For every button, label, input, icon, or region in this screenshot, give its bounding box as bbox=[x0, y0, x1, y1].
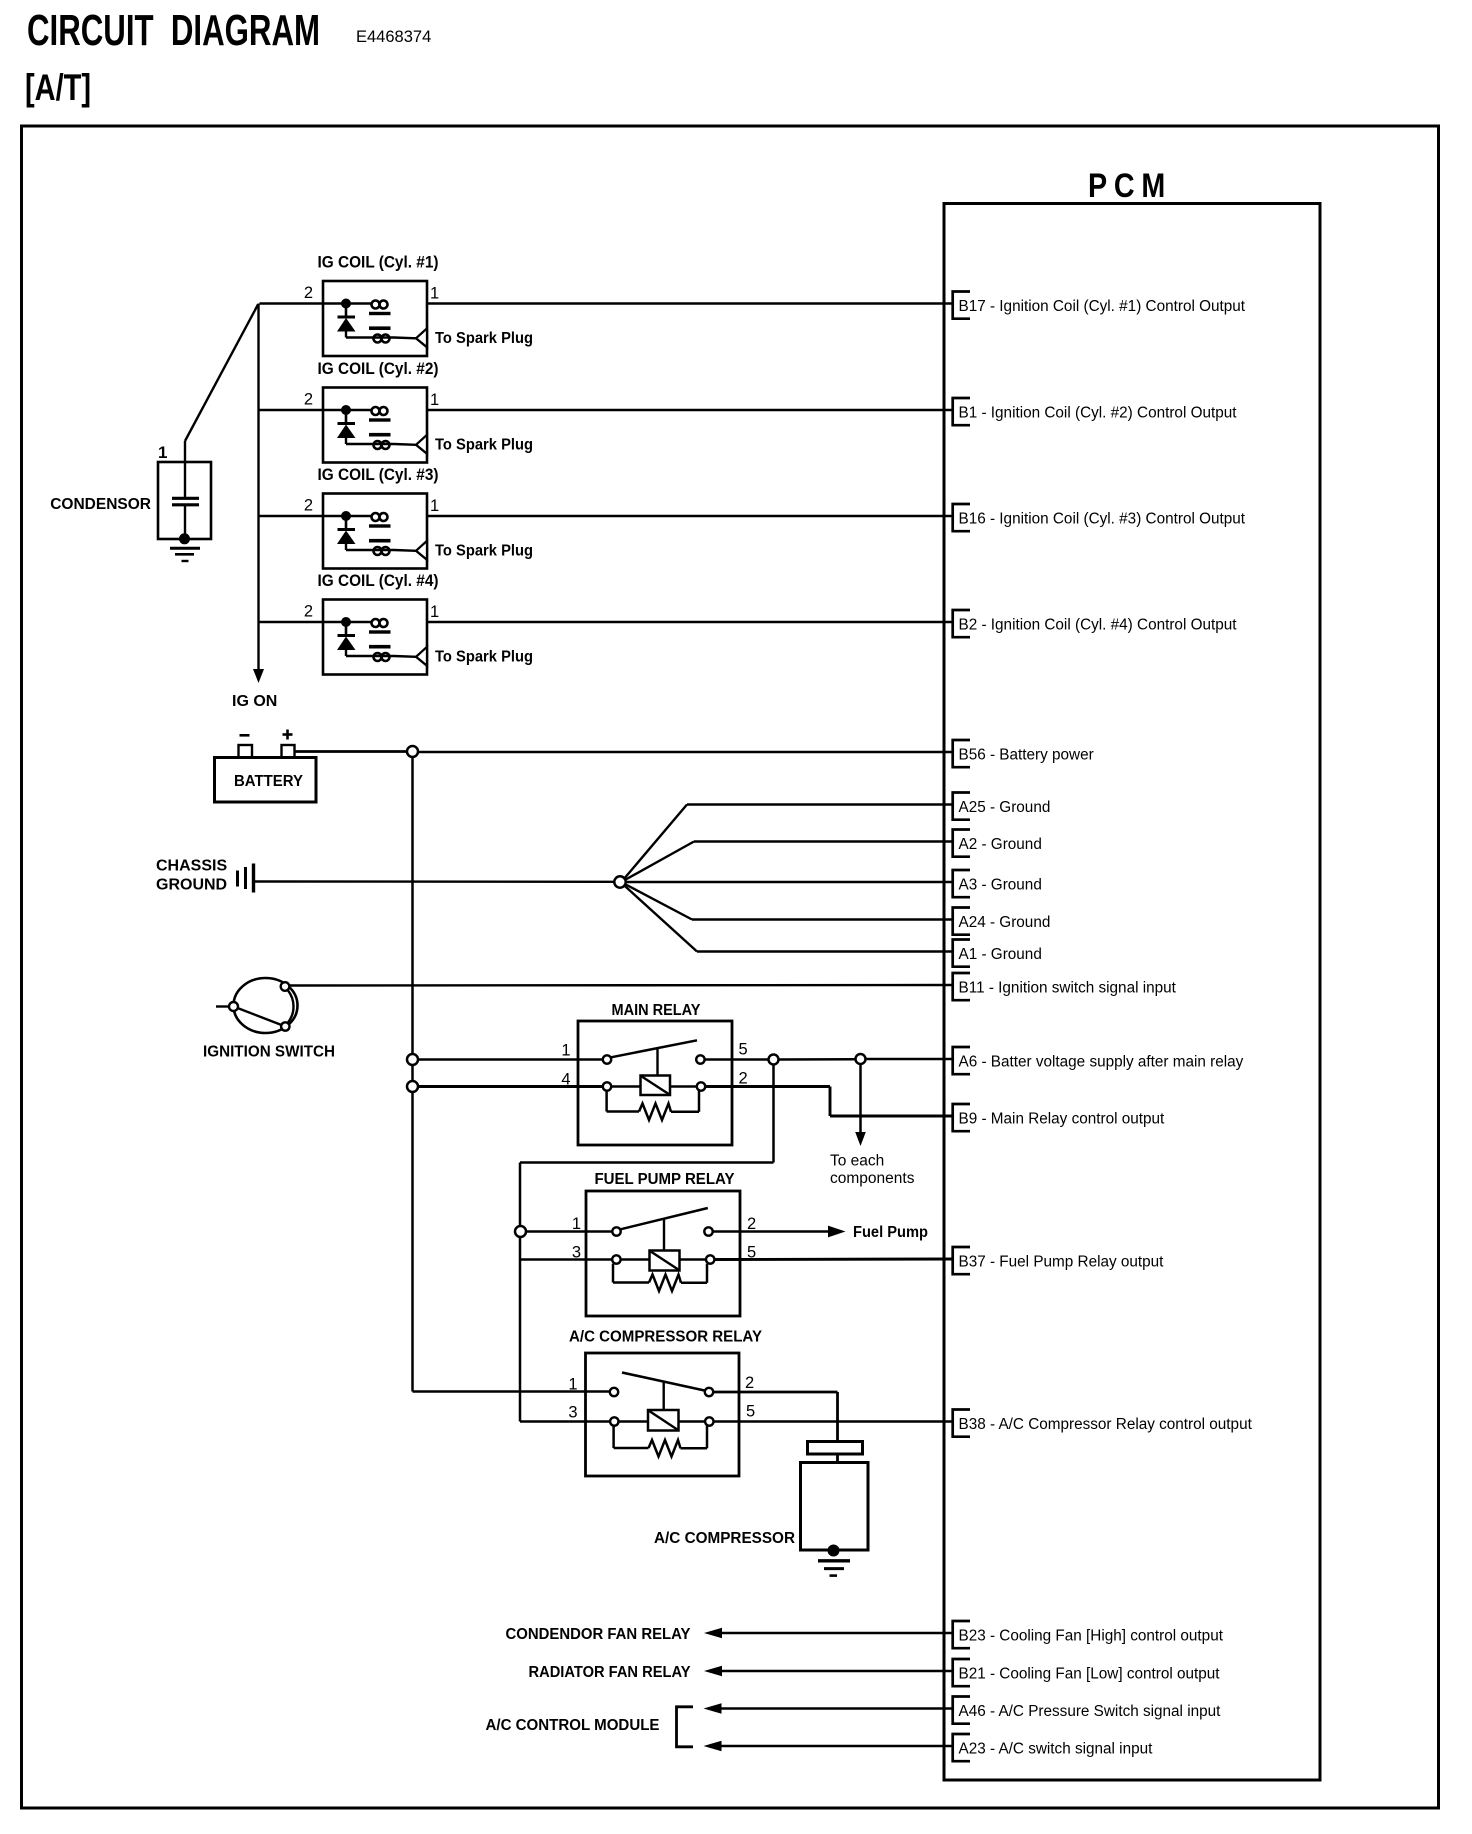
wire main relay pin 5 to node A bbox=[705, 1058, 769, 1061]
arrow to a/c control module (A23) bbox=[704, 1741, 722, 1751]
wire node B to PCM A6 bbox=[866, 1058, 953, 1061]
svg-text:1: 1 bbox=[430, 603, 439, 621]
IG coil 3 secondary wire to spark plug arrow bbox=[346, 549, 394, 551]
wire PCM A46 to a/c control module bbox=[720, 1707, 953, 1710]
IG coil 4 secondary winding bbox=[369, 645, 391, 649]
svg-text:5: 5 bbox=[746, 1403, 755, 1421]
IG coil 2 primary winding bbox=[372, 407, 380, 415]
a/c compressor clutch coil plate bbox=[808, 1442, 863, 1455]
svg-text:CONDENSOR: CONDENSOR bbox=[50, 496, 151, 513]
svg-text:A24 - Ground: A24 - Ground bbox=[959, 914, 1051, 931]
battery minus sign bbox=[240, 734, 250, 737]
svg-text:B9 - Main Relay control output: B9 - Main Relay control output bbox=[959, 1110, 1166, 1127]
svg-text:B17 - Ignition Coil (Cyl. #1): B17 - Ignition Coil (Cyl. #1) Control Ou… bbox=[959, 298, 1246, 315]
svg-text:4: 4 bbox=[561, 1071, 570, 1089]
a/c compressor ground dot bbox=[828, 1545, 840, 1557]
condensor lower lead bbox=[184, 505, 186, 539]
svg-text:A1 - Ground: A1 - Ground bbox=[959, 946, 1042, 963]
svg-text:A2 - Ground: A2 - Ground bbox=[959, 836, 1042, 853]
svg-text:2: 2 bbox=[304, 603, 313, 621]
svg-text:[A/T]: [A/T] bbox=[25, 67, 91, 108]
svg-text:2: 2 bbox=[739, 1070, 748, 1088]
ignition switch contact arc bbox=[288, 991, 294, 1023]
svg-text:components: components bbox=[830, 1170, 915, 1187]
battery negative terminal bbox=[239, 745, 253, 758]
main relay pin 4 contact bbox=[603, 1082, 611, 1090]
ignition switch terminal bottom right bbox=[281, 1022, 289, 1030]
IG coil 3 secondary winding bbox=[369, 539, 391, 543]
svg-text:To Spark Plug: To Spark Plug bbox=[435, 542, 533, 559]
fuel pump relay box bbox=[586, 1191, 740, 1316]
main relay box bbox=[578, 1021, 732, 1145]
svg-text:1: 1 bbox=[568, 1376, 577, 1394]
IG coil (Cyl. #1) box bbox=[323, 281, 427, 356]
PCM pin A1 bbox=[953, 940, 970, 967]
wire PCM B21 to radiator fan relay bbox=[720, 1670, 953, 1673]
svg-text:3: 3 bbox=[572, 1244, 581, 1262]
ignition switch stub wire bbox=[216, 1005, 230, 1007]
PCM pin B9 bbox=[953, 1104, 970, 1131]
a/c relay coil bbox=[648, 1410, 679, 1431]
IG coil 1 primary winding bbox=[372, 301, 380, 309]
svg-text:A6 - Batter voltage supply aft: A6 - Batter voltage supply after main re… bbox=[959, 1053, 1244, 1070]
wire IG coil 1 pin 1 to PCM bbox=[427, 302, 953, 304]
IG coil 4 secondary wire to spark plug arrow bbox=[346, 655, 394, 657]
wire battery node to PCM B56 bbox=[418, 751, 953, 754]
IG coil 4 primary winding bbox=[372, 619, 380, 627]
IG coil (Cyl. #2) box bbox=[323, 388, 427, 463]
main relay coil wires bbox=[611, 1085, 640, 1088]
PCM pin B2 bbox=[953, 610, 970, 637]
wire node A to node B bbox=[779, 1058, 857, 1061]
svg-text:To each: To each bbox=[830, 1153, 884, 1170]
IG coil 4 internal: input wire and junction dot bbox=[323, 621, 371, 623]
a/c control module bracket bbox=[677, 1707, 694, 1747]
ignition switch wiper line bbox=[238, 1008, 282, 1025]
svg-text:2: 2 bbox=[304, 284, 313, 302]
wire a/c relay pin 5 to PCM B38 bbox=[714, 1420, 953, 1423]
a/c relay switch arm bbox=[622, 1373, 705, 1391]
IG coil 2 internal: input wire and junction dot bbox=[323, 409, 371, 411]
wire bus to IG coil 3 pin 2 bbox=[260, 515, 324, 517]
fuel pump relay pin 2 contact bbox=[704, 1227, 712, 1235]
svg-text:2: 2 bbox=[304, 497, 313, 515]
wire fuel pump relay pin 2 to fuel pump arrow bbox=[713, 1230, 828, 1233]
svg-text:2: 2 bbox=[747, 1215, 756, 1233]
svg-text:1: 1 bbox=[430, 497, 439, 515]
svg-text:3: 3 bbox=[568, 1404, 577, 1422]
a/c relay resistor loop bbox=[612, 1426, 615, 1448]
svg-text:PCM: PCM bbox=[1088, 167, 1172, 205]
wire node to A1 bbox=[624, 885, 697, 951]
svg-text:B56 - Battery power: B56 - Battery power bbox=[959, 746, 1094, 763]
a/c relay actuator link bbox=[663, 1382, 665, 1411]
wire PCM A23 to a/c control module bbox=[720, 1745, 953, 1748]
IG coil 2 secondary wire to spark plug arrow bbox=[346, 443, 394, 445]
svg-text:B1 - Ignition Coil (Cyl. #2) C: B1 - Ignition Coil (Cyl. #2) Control Out… bbox=[959, 404, 1238, 421]
PCM pin A24 bbox=[953, 908, 970, 935]
svg-text:CIRCUIT DIAGRAM: CIRCUIT DIAGRAM bbox=[27, 6, 320, 55]
arrow to a/c control module (A46) bbox=[704, 1703, 722, 1713]
arrow to radiator fan relay bbox=[704, 1666, 722, 1676]
main relay pin 2 contact bbox=[697, 1082, 705, 1090]
a/c compressor ground symbol bbox=[818, 1559, 850, 1562]
condensor junction dot bbox=[179, 533, 190, 544]
svg-text:FUEL PUMP RELAY: FUEL PUMP RELAY bbox=[595, 1171, 736, 1188]
fuel pump relay actuator link bbox=[663, 1220, 665, 1251]
IG coil 3 primary winding bbox=[372, 513, 380, 521]
svg-text:GROUND: GROUND bbox=[156, 877, 227, 894]
svg-text:1: 1 bbox=[561, 1042, 570, 1060]
arrow to condendor fan relay bbox=[704, 1628, 722, 1638]
chassis ground symbol (three bars) bbox=[236, 871, 239, 887]
svg-text:1: 1 bbox=[158, 443, 167, 462]
wire ignition switch to PCM B11 bbox=[289, 984, 952, 987]
wire IG coil 2 pin 1 to PCM bbox=[427, 409, 953, 411]
wire bus to IG coil 1 pin 2 bbox=[260, 302, 324, 304]
PCM pin A46 bbox=[953, 1697, 970, 1724]
node A on A6 wire bbox=[769, 1055, 779, 1065]
PCM pin A6 bbox=[953, 1047, 970, 1074]
wire node to A24 bbox=[625, 884, 692, 920]
svg-text:B16 - Ignition Coil (Cyl. #3): B16 - Ignition Coil (Cyl. #3) Control Ou… bbox=[959, 510, 1246, 527]
svg-text:B23 - Cooling Fan [High] contr: B23 - Cooling Fan [High] control output bbox=[959, 1627, 1224, 1644]
a/c relay pin 2 contact bbox=[705, 1388, 713, 1396]
wire fuel pump relay pin 5 to PCM B37 bbox=[714, 1258, 952, 1261]
svg-text:B21 - Cooling Fan [Low] contro: B21 - Cooling Fan [Low] control output bbox=[959, 1665, 1221, 1682]
main relay coil bbox=[641, 1076, 671, 1096]
wire node to A25 bbox=[624, 805, 687, 879]
fuel pump supply bus (vertical) bbox=[519, 1163, 522, 1422]
wire node to A2 bbox=[625, 842, 694, 881]
wire battery positive to node bbox=[295, 750, 408, 753]
IG coil (Cyl. #3) box bbox=[323, 494, 427, 569]
svg-text:1: 1 bbox=[430, 285, 439, 303]
PCM pin B16 bbox=[953, 504, 970, 531]
PCM pin B56 bbox=[953, 740, 970, 767]
svg-text:IG COIL (Cyl. #4): IG COIL (Cyl. #4) bbox=[318, 572, 439, 590]
svg-text:RADIATOR FAN RELAY: RADIATOR FAN RELAY bbox=[529, 1664, 692, 1681]
wire bus to condensor (diagonal) bbox=[185, 305, 258, 442]
IG coil 4 internal zener diode bbox=[345, 622, 348, 636]
wire chassis ground to fanout node bbox=[255, 880, 615, 883]
wire node to fuel pump relay pin 1 bbox=[526, 1230, 612, 1233]
svg-text:A46 - A/C Pressure Switch sign: A46 - A/C Pressure Switch signal input bbox=[959, 1703, 1222, 1720]
wire IG coil 4 pin 1 to PCM bbox=[427, 621, 953, 623]
svg-text:B11 - Ignition switch signal i: B11 - Ignition switch signal input bbox=[959, 979, 1177, 996]
main relay switch arm bbox=[611, 1040, 697, 1057]
a/c relay pin 5 contact bbox=[705, 1417, 713, 1425]
PCM box bbox=[944, 204, 1320, 1781]
ignition switch terminal top right bbox=[281, 982, 290, 991]
svg-text:5: 5 bbox=[739, 1041, 748, 1059]
battery box bbox=[215, 758, 317, 803]
svg-text:A/C COMPRESSOR RELAY: A/C COMPRESSOR RELAY bbox=[569, 1329, 763, 1346]
fuel pump relay pin 1 contact bbox=[612, 1227, 620, 1235]
ignition switch terminal left bbox=[229, 1002, 238, 1011]
ignition switch body circle bbox=[234, 978, 298, 1033]
IG coil 2 internal zener diode bbox=[345, 410, 348, 424]
svg-text:1: 1 bbox=[430, 391, 439, 409]
svg-text:IG ON: IG ON bbox=[232, 693, 277, 710]
wire IG coil 3 pin 1 to PCM bbox=[427, 515, 953, 517]
svg-text:B38 - A/C Compressor Relay con: B38 - A/C Compressor Relay control outpu… bbox=[959, 1416, 1253, 1433]
fuel pump relay pin 3 contact bbox=[612, 1255, 620, 1263]
svg-text:CHASSIS: CHASSIS bbox=[156, 858, 227, 875]
svg-text:To Spark Plug: To Spark Plug bbox=[435, 648, 533, 665]
wire node to A3 bbox=[626, 881, 953, 883]
a/c compressor relay box bbox=[586, 1353, 740, 1476]
fuel pump relay resistor loop bbox=[612, 1264, 615, 1283]
svg-text:2: 2 bbox=[745, 1374, 754, 1392]
a/c relay coil wires bbox=[619, 1420, 649, 1423]
svg-text:IGNITION SWITCH: IGNITION SWITCH bbox=[203, 1044, 335, 1061]
IG coil 1 internal: input wire and junction dot bbox=[323, 302, 371, 304]
a/c relay pin 3 contact bbox=[610, 1417, 618, 1425]
svg-text:IG COIL (Cyl. #3): IG COIL (Cyl. #3) bbox=[318, 466, 439, 484]
a/c relay pin 1 contact bbox=[610, 1388, 618, 1396]
wire node to main relay pin 4 bbox=[418, 1085, 603, 1088]
PCM pin B23 bbox=[953, 1621, 970, 1648]
PCM pin B1 bbox=[953, 398, 970, 425]
battery positive terminal bbox=[282, 745, 295, 758]
main relay actuator link bbox=[656, 1049, 658, 1076]
svg-text:B37 - Fuel Pump Relay output: B37 - Fuel Pump Relay output bbox=[959, 1253, 1165, 1270]
IG coil 1 secondary wire to spark plug arrow bbox=[346, 336, 394, 338]
PCM pin B11 bbox=[953, 973, 970, 1000]
fuel pump relay pin 5 contact bbox=[706, 1255, 714, 1263]
wire node to main relay pin 1 bbox=[418, 1058, 603, 1061]
PCM pin B21 bbox=[953, 1659, 970, 1686]
svg-text:IG COIL (Cyl. #2): IG COIL (Cyl. #2) bbox=[318, 360, 439, 378]
PCM pin A23 bbox=[953, 1734, 970, 1761]
svg-text:E4468374: E4468374 bbox=[356, 28, 431, 46]
node B on A6 wire bbox=[856, 1054, 866, 1064]
svg-text:BATTERY: BATTERY bbox=[234, 773, 304, 790]
svg-text:A/C COMPRESSOR: A/C COMPRESSOR bbox=[654, 1530, 795, 1547]
PCM pin A25 bbox=[953, 793, 970, 820]
IG coil (Cyl. #4) box bbox=[323, 600, 427, 675]
svg-text:B2 - Ignition Coil (Cyl. #4) C: B2 - Ignition Coil (Cyl. #4) Control Out… bbox=[959, 616, 1238, 633]
svg-text:CONDENDOR FAN RELAY: CONDENDOR FAN RELAY bbox=[506, 1626, 692, 1643]
condensor box bbox=[158, 462, 211, 539]
svg-text:1: 1 bbox=[572, 1215, 581, 1233]
PCM pin A3 bbox=[953, 870, 970, 897]
svg-text:IG COIL (Cyl. #1): IG COIL (Cyl. #1) bbox=[318, 254, 439, 272]
main relay resistor loop bbox=[605, 1091, 608, 1112]
wire battery bus to a/c relay pin 1 bbox=[413, 1390, 611, 1393]
wire node B down to each components arrow bbox=[859, 1064, 862, 1133]
main relay pin 5 contact bbox=[696, 1055, 704, 1063]
wire bus to IG coil 2 pin 2 bbox=[260, 409, 324, 411]
svg-text:To Spark Plug: To Spark Plug bbox=[435, 330, 533, 347]
IG coil 1 internal zener diode bbox=[345, 304, 348, 318]
wire bus to a/c relay pin 3 bbox=[520, 1420, 610, 1423]
IG coil 3 internal zener diode bbox=[345, 516, 348, 530]
fuel pump relay coil wires bbox=[621, 1258, 650, 1261]
svg-text:A3 - Ground: A3 - Ground bbox=[959, 876, 1042, 893]
fuel pump relay switch arm bbox=[621, 1208, 708, 1229]
wire bus to IG coil 4 pin 2 bbox=[260, 621, 324, 623]
condensor capacitor plates bbox=[172, 497, 199, 500]
ground fanout node bbox=[614, 876, 625, 887]
a/c compressor body bbox=[801, 1463, 869, 1551]
IG coil 1 secondary winding bbox=[369, 326, 391, 330]
svg-text:MAIN RELAY: MAIN RELAY bbox=[612, 1002, 702, 1019]
IG ON arrow head bbox=[253, 669, 264, 683]
IG coil 3 internal: input wire and junction dot bbox=[323, 515, 371, 517]
wire PCM B23 to condendor fan relay bbox=[720, 1632, 953, 1635]
wire a/c relay pin 2 to compressor clutch bbox=[713, 1391, 837, 1394]
PCM pin A2 bbox=[953, 830, 970, 857]
IG ON supply bus (vertical) bbox=[257, 304, 259, 670]
fuel pump relay pin 1 node on bus bbox=[515, 1226, 526, 1237]
PCM pin B37 bbox=[953, 1247, 970, 1274]
wire node A down to fuel pump bus bbox=[772, 1065, 775, 1163]
condensor lead-in wire bbox=[184, 441, 186, 498]
svg-text:2: 2 bbox=[304, 391, 313, 409]
a/c compressor clutch stub bbox=[836, 1454, 839, 1463]
main relay pin 4 node on battery bus bbox=[407, 1081, 418, 1092]
PCM pin B38 bbox=[953, 1410, 970, 1437]
battery plus sign bbox=[283, 733, 293, 736]
svg-text:A25 - Ground: A25 - Ground bbox=[959, 799, 1051, 816]
svg-text:A/C CONTROL MODULE: A/C CONTROL MODULE bbox=[486, 1717, 660, 1734]
main relay pin 1 contact bbox=[603, 1055, 611, 1063]
fuel pump relay coil bbox=[650, 1251, 680, 1271]
svg-text:Fuel Pump: Fuel Pump bbox=[853, 1224, 928, 1241]
svg-text:To Spark Plug: To Spark Plug bbox=[435, 436, 533, 453]
PCM pin B17 bbox=[953, 292, 970, 319]
main relay pin 1 node on battery bus bbox=[407, 1054, 418, 1065]
wire bus to fuel pump relay pin 3 bbox=[520, 1258, 612, 1261]
wire main relay pin 2 to PCM B9 bbox=[705, 1085, 830, 1088]
IG coil 2 secondary winding bbox=[369, 433, 391, 437]
condensor ground symbol bbox=[170, 547, 200, 550]
battery bus vertical bbox=[411, 757, 414, 1392]
battery node (open junction) bbox=[407, 746, 418, 757]
svg-text:A23 - A/C switch signal input: A23 - A/C switch signal input bbox=[959, 1740, 1154, 1757]
